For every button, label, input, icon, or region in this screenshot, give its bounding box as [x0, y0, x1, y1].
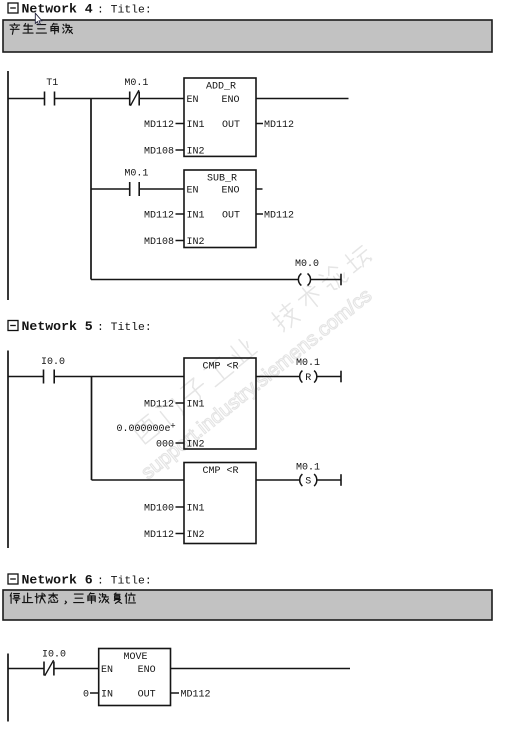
- svg-text:M0.1: M0.1: [296, 358, 320, 369]
- svg-text:MD112: MD112: [181, 690, 211, 701]
- svg-text:IN1: IN1: [187, 211, 205, 222]
- svg-text:MD112: MD112: [144, 211, 174, 222]
- svg-text:MD108: MD108: [144, 147, 174, 158]
- svg-text:0.000000e: 0.000000e: [116, 424, 170, 435]
- svg-text:T1: T1: [46, 78, 58, 89]
- svg-text:+: +: [170, 422, 175, 432]
- svg-text:M0.0: M0.0: [295, 259, 319, 270]
- svg-text:EN: EN: [187, 186, 199, 197]
- svg-text:OUT: OUT: [222, 211, 240, 222]
- svg-text:MD108: MD108: [144, 237, 174, 248]
- svg-text:EN: EN: [101, 665, 113, 676]
- svg-text:I0.0: I0.0: [41, 357, 65, 368]
- svg-text:0: 0: [83, 690, 89, 701]
- svg-text:OUT: OUT: [222, 120, 240, 131]
- svg-text:M0.1: M0.1: [296, 463, 320, 474]
- svg-text:IN2: IN2: [187, 440, 205, 451]
- svg-text:ENO: ENO: [138, 665, 156, 676]
- svg-text:000: 000: [156, 440, 174, 451]
- svg-text:ADD_R: ADD_R: [206, 82, 236, 93]
- svg-text:SUB_R: SUB_R: [207, 174, 237, 185]
- svg-text:Network 5: Network 5: [22, 319, 93, 334]
- svg-text:IN: IN: [101, 690, 113, 701]
- svg-text:EN: EN: [187, 95, 199, 106]
- svg-text:: Title:: : Title:: [97, 322, 152, 334]
- svg-text:Network 4: Network 4: [22, 2, 93, 17]
- svg-text:MD112: MD112: [264, 211, 294, 222]
- svg-text:M0.1: M0.1: [124, 169, 148, 180]
- svg-text:M0.1: M0.1: [124, 78, 148, 89]
- svg-text:MD112: MD112: [144, 530, 174, 541]
- svg-text:MOVE: MOVE: [123, 652, 147, 663]
- svg-text:CMP <R: CMP <R: [202, 362, 238, 373]
- svg-text:Network 6: Network 6: [22, 573, 93, 588]
- svg-text:MD112: MD112: [144, 120, 174, 131]
- svg-text:CMP <R: CMP <R: [202, 466, 238, 477]
- svg-text:R: R: [305, 373, 311, 384]
- svg-text:IN2: IN2: [187, 530, 205, 541]
- svg-text:IN2: IN2: [187, 147, 205, 158]
- svg-text:ENO: ENO: [222, 186, 240, 197]
- svg-text:MD112: MD112: [144, 400, 174, 411]
- svg-text:IN1: IN1: [187, 120, 205, 131]
- svg-text:: Title:: : Title:: [97, 576, 152, 588]
- svg-text:ENO: ENO: [222, 95, 240, 106]
- svg-text:I0.0: I0.0: [42, 650, 66, 661]
- svg-text:IN2: IN2: [187, 237, 205, 248]
- svg-text:S: S: [305, 477, 311, 488]
- svg-text:IN1: IN1: [187, 400, 205, 411]
- svg-text:OUT: OUT: [138, 690, 156, 701]
- svg-text:MD112: MD112: [264, 120, 294, 131]
- svg-text:IN1: IN1: [187, 504, 205, 515]
- svg-text:: Title:: : Title:: [97, 5, 152, 17]
- svg-text:MD100: MD100: [144, 504, 174, 515]
